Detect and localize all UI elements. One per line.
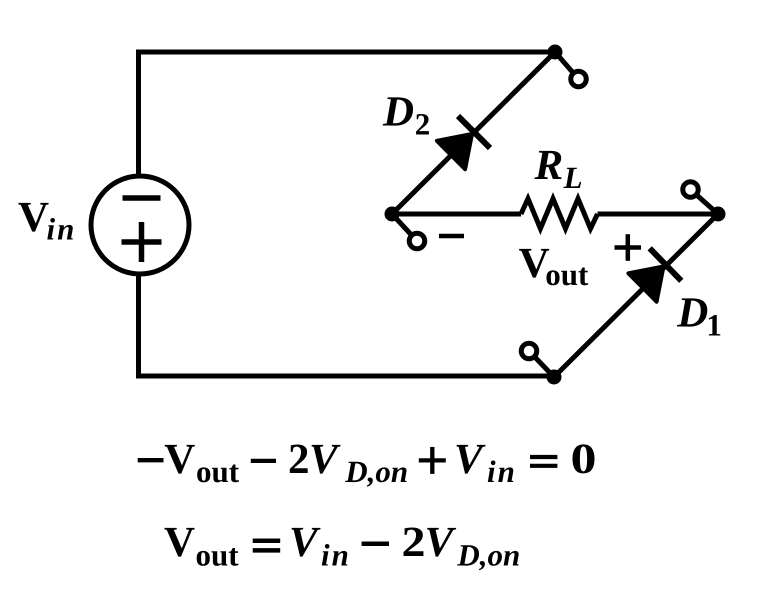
svg-text:V: V: [425, 519, 457, 566]
svg-text:out: out: [545, 257, 589, 292]
voltage source plus sign: [122, 222, 162, 262]
svg-text:D: D: [382, 88, 414, 135]
wire stub right terminal: [691, 190, 719, 215]
equation 2: Vout = Vin - 2VD,on: [164, 519, 520, 572]
terminal open circle left: [409, 233, 425, 249]
svg-text:R: R: [534, 142, 564, 189]
wire left vertical top: [136, 55, 141, 177]
diode D2 cathode bar: [458, 116, 490, 148]
wire stub bottom terminal: [529, 351, 554, 377]
wire diagonal branch D1: [554, 214, 718, 377]
svg-text:V: V: [454, 436, 486, 483]
svg-text:V: V: [164, 519, 195, 566]
resistor RL: [521, 199, 598, 229]
svg-text:in: in: [47, 212, 77, 247]
svg-text:V: V: [289, 519, 321, 566]
svg-text:D,on: D,on: [344, 454, 408, 489]
svg-text:V: V: [164, 436, 195, 483]
node left junction: [385, 207, 400, 222]
svg-text:0: 0: [571, 436, 597, 483]
svg-text:V: V: [309, 436, 341, 483]
voltage source minus sign: [123, 195, 161, 201]
svg-text:in: in: [487, 454, 517, 489]
wire middle left segment: [392, 212, 521, 217]
polarity plus sign: [615, 234, 642, 261]
svg-text:V: V: [18, 194, 49, 241]
wire stub top terminal: [555, 52, 579, 79]
svg-text:D: D: [676, 290, 708, 337]
svg-text:1: 1: [706, 308, 722, 343]
wire diagonal branch D2: [392, 52, 555, 214]
wire middle right segment: [598, 212, 719, 217]
wire bottom horizontal: [136, 374, 554, 379]
diode D2 triangle: [437, 134, 472, 169]
polarity minus sign: [439, 234, 464, 239]
node bottom junction: [547, 370, 562, 385]
svg-text:out: out: [196, 537, 240, 572]
diode D1 triangle: [628, 267, 663, 302]
terminal open circle right: [683, 182, 699, 198]
voltage source Vin circle: [91, 176, 189, 274]
terminal open circle bottom: [521, 343, 537, 359]
node right junction: [711, 207, 726, 222]
svg-text:D,on: D,on: [456, 537, 520, 572]
diode D1 cathode bar: [650, 248, 682, 280]
equation 1: -Vout - 2VD,on + Vin = 0: [138, 436, 597, 489]
svg-text:out: out: [196, 454, 240, 489]
svg-text:2: 2: [402, 519, 426, 566]
svg-text:in: in: [321, 537, 351, 572]
wire top horizontal: [136, 50, 555, 55]
svg-text:2: 2: [288, 436, 310, 483]
node top junction: [548, 45, 563, 60]
wire stub left terminal: [392, 214, 417, 241]
svg-text:2: 2: [415, 106, 431, 141]
svg-text:L: L: [563, 160, 583, 195]
wire left vertical bottom: [136, 274, 141, 374]
terminal open circle top: [571, 71, 587, 87]
